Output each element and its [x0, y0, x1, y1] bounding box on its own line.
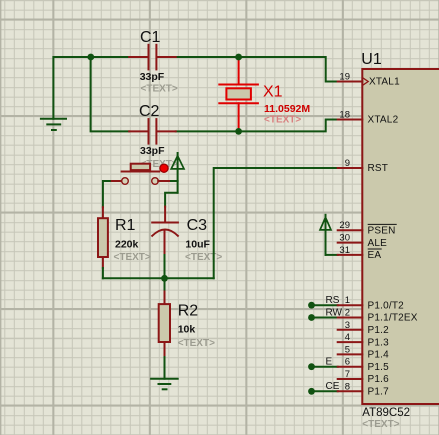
node CE dot [308, 388, 315, 395]
svg-text:31: 31 [339, 245, 350, 256]
node E dot [308, 363, 315, 370]
svg-text:11.0592M: 11.0592M [264, 103, 310, 115]
wire top rail from ground to XTAL1 jog [53, 57, 129, 119]
svg-text:EA: EA [368, 250, 382, 261]
pin 2 P1.1/T2EX [338, 317, 363, 319]
wire net E [312, 366, 338, 368]
capacitor C3 [152, 207, 178, 255]
pin 8 P1.7 [338, 390, 363, 392]
pin 4 P1.3 [338, 341, 363, 343]
power terminal (EA pin) [320, 215, 331, 255]
svg-text:<TEXT>: <TEXT> [185, 252, 222, 263]
wire net CE [312, 390, 338, 392]
wire bottom rail [103, 277, 214, 279]
node RW dot [308, 314, 315, 321]
svg-text:C3: C3 [187, 217, 208, 234]
svg-text:P1.7: P1.7 [368, 387, 390, 398]
wire net RW [312, 317, 338, 319]
svg-text:10k: 10k [178, 324, 196, 336]
svg-text:3: 3 [345, 320, 350, 331]
pin 3 P1.2 [338, 329, 363, 331]
svg-text:33pF: 33pF [140, 145, 165, 157]
svg-text:30: 30 [339, 233, 350, 244]
svg-text:10uF: 10uF [185, 238, 210, 250]
svg-text:C1: C1 [140, 29, 161, 46]
svg-text:PSEN: PSEN [368, 226, 396, 237]
pin 1 P1.0/T2 [338, 304, 363, 306]
wire [176, 57, 338, 82]
wire R1 bottom [102, 268, 104, 278]
svg-text:<TEXT>: <TEXT> [264, 114, 301, 125]
capacitor C2 [129, 119, 176, 144]
button state red dot [160, 164, 168, 172]
pin 5 P1.4 [338, 353, 363, 355]
svg-text:<TEXT>: <TEXT> [114, 252, 151, 263]
pin 30 ALE [338, 242, 363, 244]
pin 7 P1.6 [338, 378, 363, 380]
node A junction top rail [87, 54, 94, 61]
pin 29 PSEN [338, 229, 363, 231]
svg-text:4: 4 [345, 332, 350, 343]
svg-text:P1.3: P1.3 [368, 337, 390, 348]
ground [41, 119, 66, 130]
svg-text:220k: 220k [115, 238, 139, 250]
wire C3 bottom [164, 255, 166, 278]
node RS dot [308, 302, 315, 309]
wire RST riser [214, 168, 338, 278]
svg-text:ALE: ALE [368, 238, 388, 249]
svg-text:RST: RST [368, 163, 389, 174]
capacitor C1 [129, 45, 176, 70]
svg-text:<TEXT>: <TEXT> [141, 83, 178, 94]
svg-text:P1.1/T2EX: P1.1/T2EX [368, 313, 418, 324]
svg-text:C2: C2 [139, 103, 160, 120]
svg-text:<TEXT>: <TEXT> [178, 338, 215, 349]
svg-text:6: 6 [345, 357, 350, 368]
svg-text:9: 9 [345, 158, 350, 169]
pin 18 XTAL2 [338, 119, 363, 121]
wire C2 rail to XTAL2 [176, 120, 338, 132]
wire R2 top [164, 278, 166, 289]
svg-text:U1: U1 [361, 51, 382, 68]
crystal X1 [219, 57, 258, 131]
svg-text:P1.5: P1.5 [368, 362, 390, 373]
svg-text:P1.0/T2: P1.0/T2 [368, 300, 405, 311]
wire power stem to C3 [165, 193, 178, 207]
microcontroller U1 AT89C52 body [362, 69, 439, 404]
pin 31 EA [338, 254, 363, 256]
wire button left branch [103, 181, 112, 207]
svg-text:33pF: 33pF [140, 71, 165, 83]
node junction X1 bottom [235, 128, 242, 135]
svg-text:29: 29 [339, 220, 350, 231]
node junction X1 top [235, 54, 242, 61]
svg-text:R2: R2 [178, 303, 199, 320]
pin 9 RST [338, 167, 363, 169]
svg-text:7: 7 [345, 369, 350, 380]
power terminal (near button) [171, 153, 184, 193]
node junction bottom rail [161, 275, 168, 282]
wire R2 bottom [164, 357, 166, 379]
svg-text:P1.2: P1.2 [368, 325, 390, 336]
wire net RS [312, 304, 338, 306]
resistor R2 [159, 290, 170, 358]
svg-text:XTAL2: XTAL2 [368, 115, 399, 126]
resistor R1 [98, 207, 108, 268]
svg-text:2: 2 [345, 308, 350, 319]
wire power to EA pin [326, 254, 338, 256]
svg-text:XTAL1: XTAL1 [369, 77, 400, 88]
svg-text:P1.4: P1.4 [368, 350, 390, 361]
wire branch down to C2 rail [91, 57, 130, 131]
pin 19 XTAL1 [338, 81, 363, 83]
svg-text:1: 1 [345, 295, 350, 306]
svg-text:E: E [326, 357, 333, 368]
svg-text:<TEXT>: <TEXT> [362, 419, 399, 430]
button SW1 [112, 164, 171, 185]
svg-text:P1.6: P1.6 [368, 374, 390, 385]
svg-text:AT89C52: AT89C52 [362, 407, 410, 419]
pin 6 P1.5 [338, 366, 363, 368]
svg-text:X1: X1 [263, 84, 283, 101]
svg-text:8: 8 [345, 381, 350, 392]
svg-text:18: 18 [339, 109, 350, 120]
ground bottom [151, 379, 178, 390]
wire button right to power stem [171, 180, 178, 182]
svg-text:R1: R1 [115, 217, 136, 234]
svg-text:19: 19 [339, 71, 350, 82]
svg-text:5: 5 [345, 344, 350, 355]
